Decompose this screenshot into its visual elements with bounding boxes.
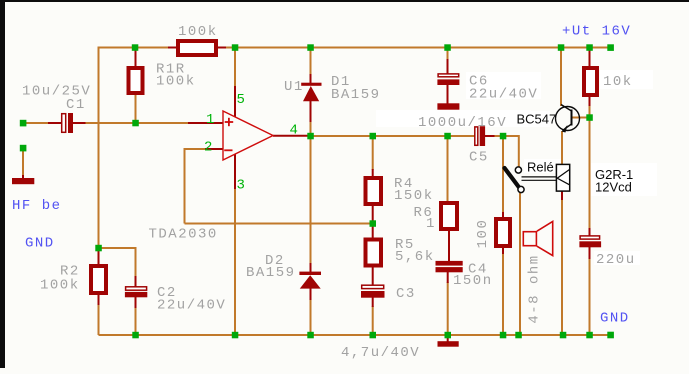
transistor Q1 BC547 [556, 105, 580, 133]
wire output line [308, 135, 475, 137]
junction nodes green [20, 44, 614, 338]
svg-text:C1: C1 [66, 97, 86, 113]
svg-text:C5: C5 [469, 150, 489, 166]
capacitor C6 [437, 74, 459, 85]
svg-text:TDA2030: TDA2030 [149, 227, 218, 243]
ground symbol C6 [437, 103, 459, 109]
svg-text:4: 4 [290, 123, 298, 139]
svg-text:2: 2 [204, 140, 212, 156]
capacitor C4 150n [436, 261, 463, 272]
svg-text:100k: 100k [178, 24, 218, 40]
wire base [572, 117, 590, 119]
mechanical link lines [522, 177, 557, 180]
svg-text:BA159: BA159 [331, 87, 381, 103]
wire bias to C2 [99, 248, 136, 277]
wire C5 out to junction [494, 135, 504, 137]
wire D1 top [310, 49, 312, 75]
svg-text:GND: GND [600, 311, 630, 327]
wire collector to rail [560, 48, 562, 107]
svg-text:10k: 10k [603, 74, 633, 90]
svg-text:C3: C3 [396, 286, 416, 302]
svg-text:22u/40V: 22u/40V [157, 298, 226, 314]
wire feedback vertical [185, 149, 206, 224]
capacitor C1 [62, 113, 73, 133]
svg-text:12Vcd: 12Vcd [595, 180, 632, 195]
wire speaker column [519, 193, 521, 335]
wire 10k bottom to base node [589, 105, 591, 118]
svg-text:3: 3 [237, 178, 245, 194]
wire emitter to relay coil [561, 131, 563, 164]
wire pin3 lower [234, 188, 236, 335]
svg-text:100: 100 [475, 219, 491, 249]
svg-text:BA159: BA159 [246, 265, 296, 281]
wire D1 bottom to output [310, 121, 312, 136]
svg-text:+Ut 16V: +Ut 16V [562, 24, 631, 40]
svg-text:1: 1 [206, 112, 214, 128]
wire C4 bottom [447, 282, 449, 335]
svg-text:150n: 150n [453, 273, 493, 289]
wire base node to 220u [589, 118, 591, 230]
resistor R4 150k [366, 178, 382, 204]
ground symbol C4 [438, 341, 459, 347]
wire top rail left bias segment [99, 48, 170, 124]
wire left vertical bias [98, 123, 100, 249]
resistor 100 ohm [496, 219, 510, 246]
label background boxes [376, 70, 657, 265]
svg-text:150k: 150k [394, 188, 434, 204]
pin stubs dark red [23, 48, 590, 342]
svg-text:5,6k: 5,6k [395, 249, 435, 265]
wire bottom rail GND [99, 334, 611, 336]
resistor R1R 100k [129, 68, 143, 93]
wire 100 ohm column [502, 136, 504, 213]
ground symbol input [12, 178, 34, 184]
diode D2 BA159 [299, 272, 321, 289]
relay coil G2R-1 [556, 164, 569, 191]
svg-text:GND: GND [25, 236, 55, 252]
svg-text:100k: 100k [40, 278, 80, 294]
resistor 100k top [178, 41, 216, 55]
op-amp U1 TDA2030 [223, 111, 273, 160]
wire pin5 upper [234, 49, 236, 87]
capacitor C3 [361, 285, 385, 298]
resistor 10k [584, 68, 597, 95]
svg-text:5: 5 [237, 92, 245, 108]
wire C6 top pin [447, 49, 449, 60]
wire junction to switch contact [504, 136, 519, 167]
svg-text:100k: 100k [156, 74, 196, 90]
diode D1 BA159 [301, 83, 321, 102]
wire R2 bottom [98, 304, 100, 335]
capacitor 220u [579, 236, 601, 247]
svg-text:HF be: HF be [12, 198, 62, 214]
wire C2 bottom [135, 307, 137, 335]
svg-text:1: 1 [426, 216, 436, 232]
relay switch contact [505, 167, 525, 193]
resistor R2 100k [91, 266, 106, 293]
capacitor C5 [475, 126, 485, 146]
wire ground stub [22, 150, 24, 176]
wire 220u bottom [589, 258, 591, 335]
wire relay coil to ground rail [561, 200, 563, 336]
resistor R6 1 [441, 203, 457, 229]
svg-text:220u: 220u [596, 252, 636, 268]
wire R1 bottom [135, 95, 137, 121]
wire top rail V+ [225, 47, 610, 49]
capacitor C2 [125, 287, 147, 298]
wire input left [25, 122, 49, 124]
wire input to op-amp [85, 122, 190, 124]
svg-text:Relé: Relé [527, 160, 554, 175]
wire R6 top [447, 136, 449, 202]
wire 100 ohm bottom [502, 253, 504, 335]
speaker 4-8 ohm [523, 221, 552, 255]
svg-text:4-8 ohm: 4-8 ohm [527, 254, 543, 323]
wire R4 top [372, 136, 374, 170]
wire feedback horizontal [185, 223, 373, 225]
svg-text:1000u/16V: 1000u/16V [418, 115, 507, 131]
wire output to D2 [310, 136, 312, 264]
svg-text:U1: U1 [284, 79, 304, 95]
resistor R5 5,6k [366, 240, 382, 266]
svg-text:22u/40V: 22u/40V [469, 87, 538, 103]
svg-text:BC547: BC547 [517, 112, 557, 127]
svg-text:4,7u/40V: 4,7u/40V [341, 345, 420, 361]
wire D2 bottom [310, 299, 312, 335]
wire C3 bottom [372, 306, 374, 335]
